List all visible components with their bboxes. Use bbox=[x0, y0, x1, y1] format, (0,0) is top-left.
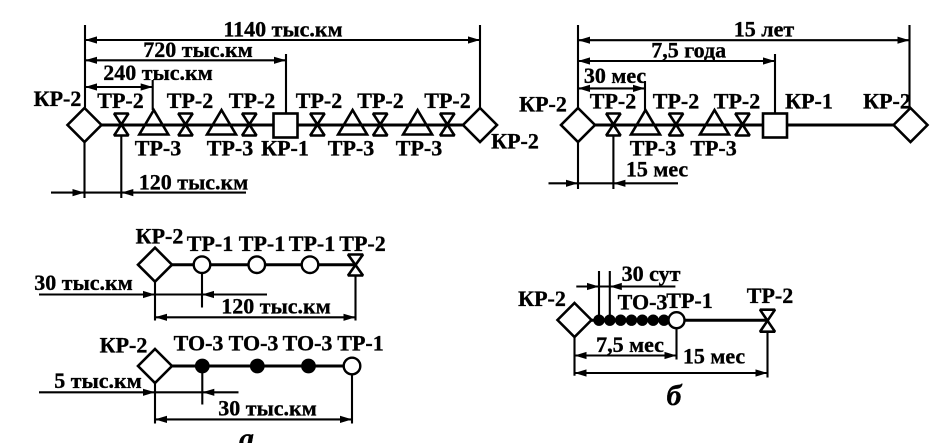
svg-text:ТР-3: ТР-3 bbox=[207, 136, 253, 161]
valve TR-2 #11 bbox=[760, 310, 775, 321]
svg-text:30 сут: 30 сут bbox=[622, 261, 681, 286]
svg-text:ТР-2: ТР-2 bbox=[714, 89, 760, 114]
valve TR-2 #6 bbox=[440, 114, 454, 125]
diamond KR-2 #5 bbox=[138, 248, 172, 282]
dimension 30 tys.km line bbox=[39, 293, 267, 295]
svg-text:120 тыс.км: 120 тыс.км bbox=[139, 170, 248, 195]
extension line diamond1 bottom bbox=[83, 142, 85, 199]
triangle TR-3 #2 bbox=[207, 110, 236, 135]
svg-text:ТР-1: ТР-1 bbox=[187, 231, 233, 256]
square KR-1 bbox=[274, 114, 298, 138]
extension line KR-1 top x=286 bbox=[285, 54, 287, 114]
triangle TR-3 #4 bbox=[403, 110, 432, 135]
diamond KR-2 #1 bbox=[68, 108, 102, 142]
dimension 15 mes line bbox=[575, 372, 768, 374]
svg-text:КР-2: КР-2 bbox=[519, 92, 567, 117]
svg-text:КР-2: КР-2 bbox=[136, 224, 184, 249]
svg-text:30 тыс.км: 30 тыс.км bbox=[34, 270, 132, 295]
svg-text:720 тыс.км: 720 тыс.км bbox=[143, 37, 252, 62]
svg-text:а: а bbox=[239, 422, 254, 443]
extension line TR-3 apex x=152.7 bbox=[152, 80, 154, 110]
dimension 15 mes top bbox=[549, 182, 679, 184]
valve TR-2 #5 bbox=[373, 114, 387, 125]
valve TR-2 #9 bbox=[735, 114, 749, 125]
wire: bottom-left-2 main line bbox=[155, 365, 352, 368]
svg-text:КР-1: КР-1 bbox=[785, 89, 833, 114]
triangle TR-3 #3 bbox=[338, 110, 367, 135]
extension line TR-3 apex x=645 bbox=[644, 81, 646, 110]
svg-text:ТР-1: ТР-1 bbox=[289, 231, 335, 256]
node TO-3 #3 bbox=[301, 359, 316, 374]
svg-text:ТР-2: ТР-2 bbox=[167, 88, 213, 113]
extension line diamond7 bottom bbox=[573, 337, 575, 376]
extension line right x=909.5 bbox=[908, 25, 910, 108]
svg-text:15 лет: 15 лет bbox=[734, 17, 795, 42]
svg-text:ТР-3: ТР-3 bbox=[328, 136, 374, 161]
extension line diamond6 bottom bbox=[154, 383, 156, 424]
svg-text:ТР-3: ТР-3 bbox=[396, 136, 442, 161]
extension line dot2 top bbox=[609, 271, 611, 317]
svg-text:ТР-2: ТР-2 bbox=[296, 88, 342, 113]
node TO-3 #1 bbox=[195, 359, 210, 374]
svg-text:5 тыс.км: 5 тыс.км bbox=[54, 368, 141, 393]
svg-text:ТО-3: ТО-3 bbox=[618, 290, 668, 315]
dimension 30 tys.km bl2 bbox=[155, 418, 352, 420]
svg-text:КР-1: КР-1 bbox=[261, 136, 309, 161]
svg-text:7,5 года: 7,5 года bbox=[651, 38, 726, 63]
dimension 5 tys.km line bbox=[39, 391, 239, 393]
svg-text:120 тыс.км: 120 тыс.км bbox=[221, 294, 330, 319]
svg-text:7,5 мес: 7,5 мес bbox=[596, 332, 664, 357]
triangle TR-3 #1 bbox=[139, 110, 168, 135]
svg-text:15 мес: 15 мес bbox=[626, 157, 689, 182]
svg-text:КР-2: КР-2 bbox=[518, 286, 566, 311]
diamond KR-2 #4 bbox=[894, 108, 928, 142]
svg-text:КР-2: КР-2 bbox=[100, 333, 148, 358]
extension line left x=578 bbox=[577, 25, 579, 108]
valve TR-2 #1 bbox=[114, 114, 128, 125]
dimension 30 mes line bbox=[578, 87, 645, 89]
svg-text:ТР-1: ТР-1 bbox=[666, 288, 712, 313]
extension line KR-1 top x=775 bbox=[774, 54, 776, 114]
circle TR-1 #2 bbox=[248, 256, 265, 273]
extension line TR-2#11 bottom bbox=[766, 332, 768, 378]
dimension 1140 tys.km line bbox=[85, 39, 480, 41]
extension line TR-2#1 bottom bbox=[120, 136, 122, 199]
extension line diamond3 bottom bbox=[577, 142, 579, 190]
dimension 30 sut line bbox=[576, 285, 675, 287]
svg-text:ТР-2: ТР-2 bbox=[357, 88, 403, 113]
svg-text:ТР-3: ТР-3 bbox=[135, 136, 181, 161]
svg-text:КР-2: КР-2 bbox=[34, 86, 82, 111]
extension line left x=85 (KR-2 to dims) bbox=[84, 25, 86, 108]
svg-text:КР-2: КР-2 bbox=[491, 129, 539, 154]
svg-text:б: б bbox=[667, 379, 683, 412]
extension line TO-3#1 bottom bbox=[201, 366, 203, 405]
diamond KR-2 #3 bbox=[561, 108, 595, 142]
svg-text:ТР-2: ТР-2 bbox=[229, 88, 275, 113]
valve TR-2 #2 bbox=[178, 114, 192, 125]
extension line diamond5 bottom bbox=[154, 282, 156, 321]
svg-text:ТР-3: ТР-3 bbox=[690, 136, 736, 161]
svg-text:ТР-1: ТР-1 bbox=[239, 231, 285, 256]
extension line TR-2#7 bottom bbox=[612, 136, 614, 190]
circle TR-1 #5 bbox=[669, 312, 685, 328]
triangle TR-3 #6 bbox=[700, 110, 729, 135]
svg-text:ТР-2: ТР-2 bbox=[653, 89, 699, 114]
valve TR-2 #10 bbox=[348, 255, 363, 266]
valve TR-2 #7 bbox=[606, 114, 620, 125]
dimension 7.5 goda line bbox=[578, 60, 775, 62]
dimension 7.5 mes line bbox=[575, 354, 677, 356]
diamond KR-2 #2 bbox=[463, 108, 497, 142]
square KR-1 #2 bbox=[763, 114, 787, 138]
svg-text:240 тыс.км: 240 тыс.км bbox=[103, 60, 212, 85]
svg-text:30 тыс.км: 30 тыс.км bbox=[218, 396, 316, 421]
dimension 720 tys.km line bbox=[85, 59, 286, 61]
wire: bottom-right main line bbox=[575, 319, 768, 322]
svg-text:ТО-3: ТО-3 bbox=[174, 331, 224, 356]
extension line TR-1#1 bottom bbox=[201, 273, 203, 308]
svg-text:ТР-1: ТР-1 bbox=[337, 331, 383, 356]
dimension 120 tys.km bbox=[51, 192, 246, 194]
triangle TR-3 #5 bbox=[631, 110, 660, 135]
svg-text:ТО-3: ТО-3 bbox=[229, 331, 279, 356]
diamond KR-2 #7 bbox=[558, 303, 592, 337]
wire: top-left main line bbox=[85, 124, 481, 127]
diamond KR-2 #6 bbox=[138, 349, 172, 383]
svg-text:ТО-3: ТО-3 bbox=[283, 331, 333, 356]
svg-text:ТР-2: ТР-2 bbox=[97, 88, 143, 113]
wire: bottom-left-1 main line bbox=[155, 263, 356, 266]
circle TR-1 #3 bbox=[302, 256, 319, 273]
extension line TR-2#10 bottom bbox=[354, 276, 356, 321]
dimension 15 let line bbox=[578, 39, 910, 41]
valve TR-2 #3 bbox=[242, 114, 256, 125]
svg-text:ТР-2: ТР-2 bbox=[339, 231, 385, 256]
circle TR-1 #1 bbox=[194, 256, 211, 273]
dimension 120 tys.km bl bbox=[155, 316, 356, 318]
node TO-3 #2 bbox=[250, 359, 265, 374]
svg-text:ТР-2: ТР-2 bbox=[590, 89, 636, 114]
extension line dot1 top bbox=[598, 271, 600, 317]
svg-text:ТР-2: ТР-2 bbox=[747, 283, 793, 308]
extension line TR-1#5 bottom bbox=[675, 328, 677, 359]
node TO-3 br dots bbox=[593, 315, 604, 326]
extension line right x=480 bbox=[479, 25, 481, 108]
valve TR-2 #4 bbox=[310, 114, 324, 125]
extension line TR-1#4 bottom bbox=[351, 375, 353, 424]
wire: top-right main line bbox=[578, 124, 911, 127]
dimension 240 tys.km line bbox=[85, 86, 153, 88]
circle TR-1 #4 bbox=[344, 358, 361, 375]
svg-text:30 мес: 30 мес bbox=[584, 63, 647, 88]
svg-text:15 мес: 15 мес bbox=[683, 344, 746, 369]
svg-text:ТР-2: ТР-2 bbox=[424, 88, 470, 113]
valve TR-2 #8 bbox=[669, 114, 683, 125]
svg-text:КР-2: КР-2 bbox=[863, 89, 911, 114]
